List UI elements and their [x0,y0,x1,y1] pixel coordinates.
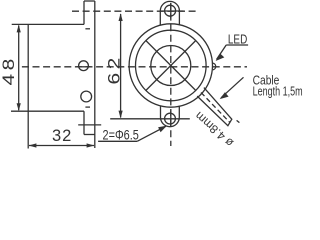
svg-text:48: 48 [0,55,17,85]
dimension 48 line with arrows [18,26,20,111]
leader Cable Length [221,77,244,98]
side view tick lower [85,106,90,108]
side view hole crosshair [77,66,91,68]
front view top ear hole [165,5,176,16]
svg-text:2=Φ6.5: 2=Φ6.5 [103,127,139,143]
svg-text:32: 32 [52,127,72,145]
centerline vertical front view [170,3,172,146]
cable centerline tick beyond end [237,120,240,122]
side view flange bottom tab bottom edge [84,134,95,136]
dimension 32 line with arrows [29,145,94,147]
side view hole circle lower [81,91,92,102]
side view flange right edge [94,1,96,148]
side view body left edge [27,24,29,111]
side view tick upper [85,28,90,30]
LED bump on bezel right edge [213,63,216,70]
dimension 62 line with arrows [120,14,122,118]
svg-text:Length 1,5m: Length 1,5m [253,85,303,99]
front view top ear arc [160,1,179,25]
svg-text:LED: LED [228,34,247,47]
centerline top holes [72,10,199,12]
cable dashed centerline [201,93,230,123]
front view diagonal cross line 2 [146,41,196,91]
bottom hole extension line [110,118,190,120]
side view flange top tab left edge [83,1,85,24]
leader 2=PHI6.5: underline and arrow [98,140,137,142]
front view bottom ear hole [165,113,176,124]
svg-text:62: 62 [105,54,123,84]
top ear hole crosshair [161,10,184,12]
front view bottom ear arc [161,106,180,127]
leader LED: underline and arrow [226,44,248,46]
side view body bottom edge [11,110,84,112]
svg-text:ø 4.8mm: ø 4.8mm [192,109,236,150]
bottom ear hole crosshair [170,111,172,127]
front view diagonal cross line 1 [146,41,196,91]
dimension 32 extension left [27,111,29,148]
front view inner circle [151,46,191,86]
side view flange top tab top edge [84,0,95,2]
front view middle circle [136,30,207,101]
side view body top edge [12,23,84,25]
front view outer circle [129,24,212,107]
side view hole circle upper [79,61,89,71]
side view flange bottom tab left edge [83,111,85,134]
side view flange bottom cross line [78,124,101,126]
centerline horizontal main [22,66,247,68]
cable outline [197,88,232,126]
